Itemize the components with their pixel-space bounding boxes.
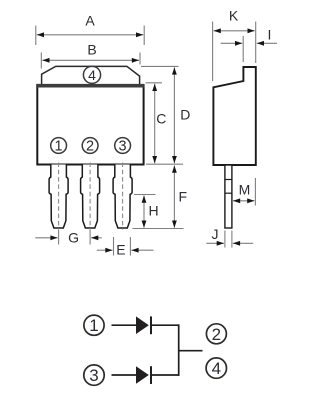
dim H arrow line <box>143 196 145 228</box>
svg-text:D: D <box>180 107 190 123</box>
dim C extension line (body top) <box>146 82 163 84</box>
svg-text:H: H <box>149 203 159 219</box>
dim M tick (body face extension) <box>254 178 256 206</box>
pin 4 circled label on tab <box>83 66 100 83</box>
lead side tick 2 <box>225 192 232 194</box>
dim D extension line (tab top) <box>141 65 179 67</box>
dim E right outside arrow <box>131 249 153 251</box>
dim G tick left <box>58 230 60 245</box>
svg-text:I: I <box>268 27 272 43</box>
dim J tick left <box>224 231 226 248</box>
pin 1 circled label (schematic) <box>84 315 104 335</box>
dim A extension line left <box>35 26 37 46</box>
lead 3 center dashed line <box>122 163 124 230</box>
svg-text:3: 3 <box>119 139 127 155</box>
lead 2 (front) <box>81 165 100 229</box>
svg-text:E: E <box>116 241 125 257</box>
wire from pin 1 to diode D1 anode <box>112 324 137 326</box>
common cathode bus (vertical wire) <box>178 324 180 375</box>
svg-text:1: 1 <box>55 139 63 155</box>
pin 3 circled label <box>115 138 131 155</box>
output stub wire to pins 2/4 <box>179 350 203 352</box>
dim K arrow line <box>214 30 255 32</box>
lead 1 center dashed line <box>58 163 60 230</box>
pin 3 circled label (schematic) <box>84 365 104 385</box>
svg-text:3: 3 <box>89 366 98 385</box>
lead (side view) <box>225 165 232 228</box>
diode D1 (anode pin 1) <box>136 316 151 334</box>
dim I right outside arrow <box>257 42 277 44</box>
dim B extension line left <box>40 53 42 69</box>
wire from diode D2 cathode to bus <box>151 374 180 376</box>
svg-text:F: F <box>179 189 188 205</box>
svg-text:C: C <box>156 111 166 127</box>
wire from pin 3 to diode D2 anode <box>112 374 137 376</box>
dim G tick right <box>89 230 91 245</box>
dim D arrow line <box>173 67 175 163</box>
dim E tick left <box>113 237 115 256</box>
dim A arrow line <box>37 34 143 36</box>
svg-text:4: 4 <box>88 67 96 83</box>
svg-text:G: G <box>68 230 79 246</box>
dim G left outside arrow <box>35 237 57 239</box>
dim K extension line left <box>212 22 214 82</box>
pin 2 circled label (schematic) <box>206 324 226 344</box>
pin 4 circled label (schematic) <box>206 358 226 378</box>
dim H extension line (top) <box>134 194 156 196</box>
dim I tick (tab left edge extension) <box>242 36 244 62</box>
dim A extension line right <box>143 26 145 46</box>
legs bottom extension line <box>133 228 184 230</box>
lead 1 (front) <box>49 165 68 229</box>
dim G right outside arrow <box>91 237 102 239</box>
dim E tick right <box>129 237 131 256</box>
tab (mounting tab, front) <box>42 66 140 86</box>
dim E left outside arrow <box>97 249 113 251</box>
lead side tick 1 <box>225 179 232 181</box>
svg-text:4: 4 <box>212 359 221 378</box>
package body (front) <box>37 85 143 164</box>
svg-text:1: 1 <box>89 316 98 335</box>
dim C arrow line <box>154 84 156 163</box>
dim M arrow line <box>233 200 254 202</box>
package body (side profile) <box>213 67 255 165</box>
svg-text:A: A <box>85 13 95 29</box>
dim I left outside arrow <box>221 42 243 44</box>
dim J left outside arrow <box>206 242 224 244</box>
dim J tick right <box>231 231 233 248</box>
lead 3 (front) <box>113 165 132 229</box>
diode D2 (anode pin 3) <box>136 366 151 384</box>
dim F arrow line <box>173 166 175 228</box>
dim B arrow line <box>42 59 139 61</box>
svg-text:2: 2 <box>212 325 221 344</box>
body top thick bar <box>36 84 144 88</box>
wire from diode D1 cathode to bus <box>151 324 180 326</box>
dim K extension line right <box>255 22 257 64</box>
dim J right outside arrow <box>233 242 253 244</box>
svg-text:B: B <box>87 42 96 58</box>
pin 2 circled label <box>82 138 98 155</box>
svg-text:J: J <box>212 226 219 242</box>
svg-text:2: 2 <box>86 139 94 155</box>
lead 2 center dashed line <box>89 163 91 230</box>
svg-text:M: M <box>239 182 251 198</box>
body bottom extension line <box>146 163 183 165</box>
pin 1 circled label <box>51 138 67 155</box>
svg-text:K: K <box>229 8 239 24</box>
dim B extension line right <box>139 53 141 65</box>
